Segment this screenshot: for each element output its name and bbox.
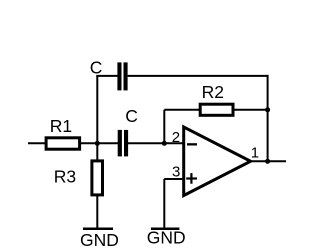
wire output — [251, 160, 287, 162]
wire top left to cap C — [96, 75, 118, 77]
capacitor C (series input) plate 1 — [118, 130, 122, 157]
capacitor C (top feedback) plate 1 — [117, 62, 121, 90]
svg-text:1: 1 — [251, 145, 259, 162]
wire R1 to node — [80, 142, 118, 144]
wire cap C2 to op-amp pin 2 — [128, 142, 183, 144]
wire R2 right — [234, 109, 268, 111]
wire node up — [96, 76, 98, 143]
capacitor C (series input) plate 2 — [124, 130, 128, 157]
junction node at output — [265, 159, 270, 164]
resistor R2 — [200, 104, 233, 115]
wire R2 left — [164, 109, 200, 111]
wire pin 3 down to ground — [163, 179, 165, 228]
op-amp inverting input minus sign — [187, 143, 197, 145]
junction node at pin 2 — [162, 141, 167, 146]
ground symbol under pin 3 — [151, 227, 179, 230]
svg-text:3: 3 — [172, 163, 180, 180]
wire input left — [28, 142, 46, 144]
junction node at R1/R3/C — [95, 141, 100, 146]
op-amp U1 triangle — [184, 127, 251, 196]
svg-text:R2: R2 — [202, 82, 224, 102]
svg-text:C: C — [90, 58, 103, 78]
wire cap C to right — [128, 75, 268, 77]
wire right vertical — [267, 75, 269, 161]
resistor R1 — [46, 138, 80, 149]
svg-text:C: C — [125, 106, 138, 126]
capacitor C (top feedback) plate 2 — [124, 62, 128, 90]
junction node at R2 / right vertical — [265, 107, 270, 112]
wire R2 left vertical to pin 2 node — [163, 110, 165, 144]
op-amp non-inverting input plus sign — [186, 173, 197, 184]
svg-text:R3: R3 — [54, 167, 76, 187]
wire pin 3 stub — [164, 178, 183, 180]
wire R3 down to ground — [96, 196, 98, 229]
wire node down to R3 — [96, 143, 98, 161]
ground symbol under R3 — [83, 228, 113, 231]
svg-text:GND: GND — [80, 230, 119, 250]
svg-text:R1: R1 — [50, 116, 72, 136]
resistor R3 — [92, 161, 103, 195]
svg-text:GND: GND — [147, 228, 186, 248]
svg-text:2: 2 — [172, 129, 180, 146]
